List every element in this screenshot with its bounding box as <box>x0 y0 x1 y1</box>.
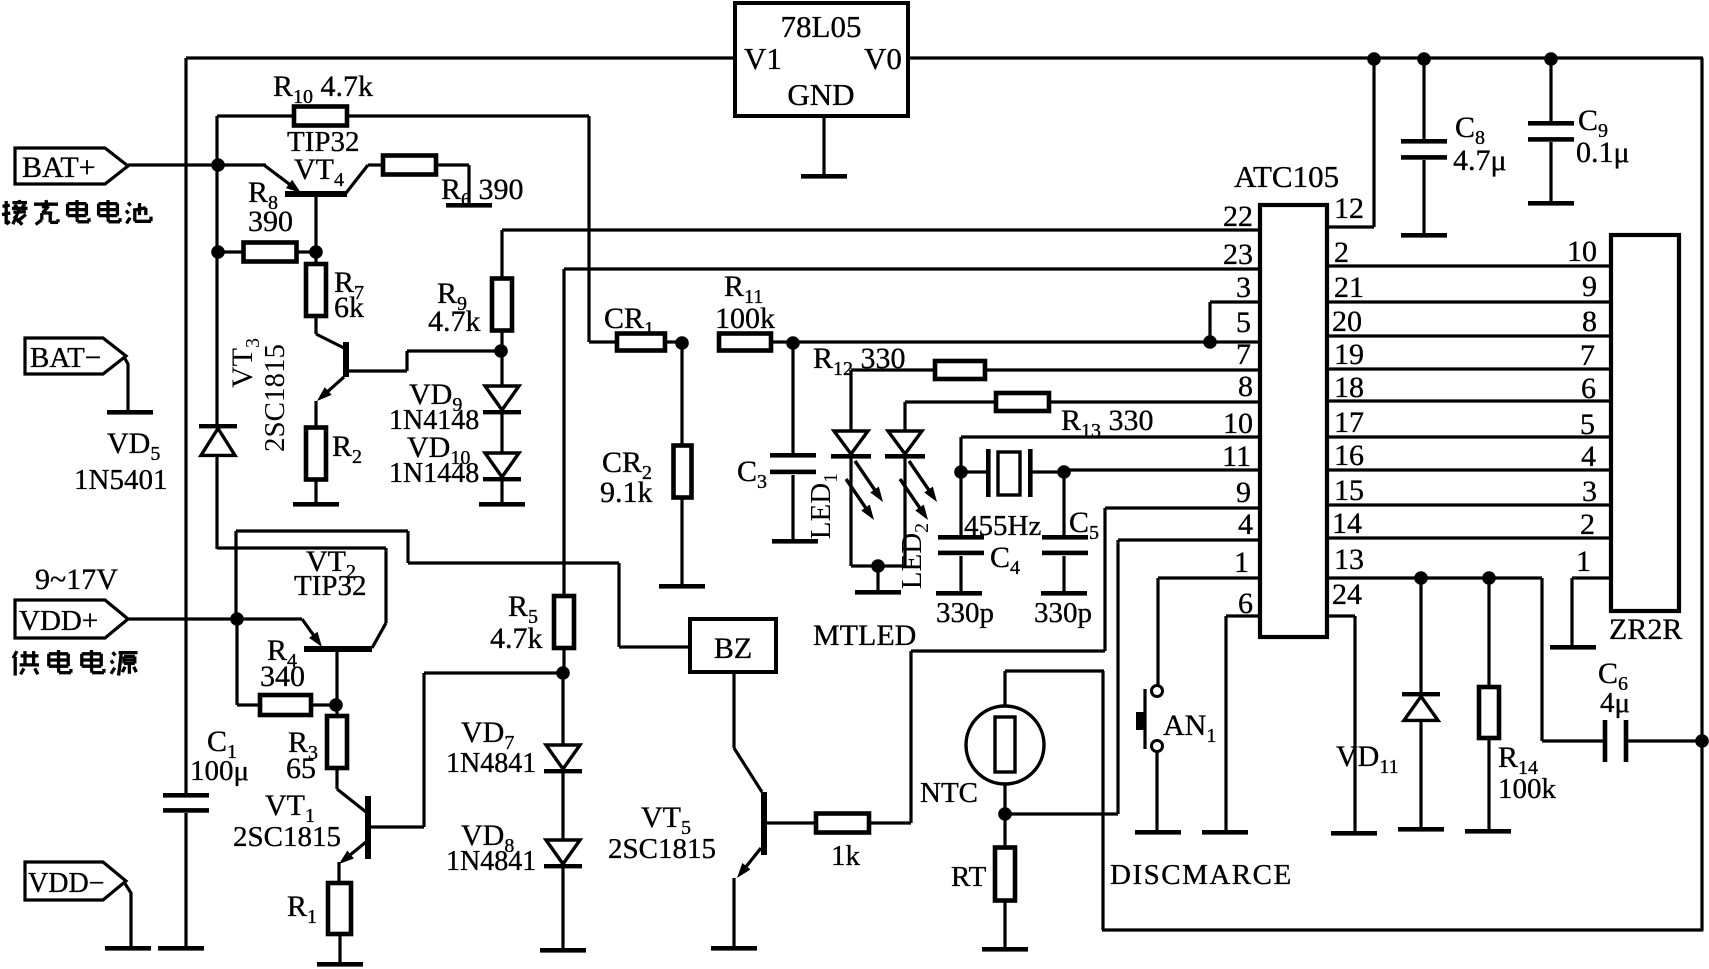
label VT3 2SC1815 <box>226 338 291 452</box>
transistor VT3 base bar <box>343 342 349 377</box>
ground VT5 <box>711 946 757 951</box>
ground C5 <box>1041 591 1087 596</box>
wire bottom rail (DISCMARCE) <box>1102 928 1703 931</box>
svg-text:12: 12 <box>1334 192 1364 225</box>
svg-text:3: 3 <box>1236 271 1251 304</box>
svg-text:15: 15 <box>1334 474 1364 507</box>
svg-text:3: 3 <box>1582 475 1597 508</box>
node VT2 base/R4/R3 junction <box>329 698 343 712</box>
svg-text:1N1448: 1N1448 <box>389 458 479 489</box>
wire NTC top routing <box>1005 671 1104 707</box>
pushbutton AN1 <box>1136 686 1216 752</box>
svg-text:21: 21 <box>1334 271 1364 304</box>
svg-text:2: 2 <box>1580 508 1595 541</box>
resistor R9 4.7k <box>428 277 512 338</box>
wire row pins 14-2 <box>1327 536 1611 539</box>
LED LED2 <box>885 402 933 589</box>
wire row pins 17-5 <box>1327 435 1611 438</box>
node R5/VD7/VT1 junction <box>556 666 570 680</box>
svg-text:9~17V: 9~17V <box>35 563 118 596</box>
wire R9 to node <box>500 329 503 351</box>
wire pin10 line <box>961 437 1260 472</box>
node top rail / pin12 riser junction <box>1367 52 1381 66</box>
resistor R1 <box>287 883 351 934</box>
resistor R7 6k <box>306 252 364 324</box>
svg-text:10: 10 <box>1223 407 1253 440</box>
node VD11 junction <box>1414 571 1428 585</box>
IC U3 ZR2R <box>1609 235 1682 646</box>
pin 23 ATC105 left <box>1223 238 1253 271</box>
pin 20 ATC105 right <box>1332 305 1362 338</box>
wire row pins 19-7 <box>1327 367 1611 370</box>
ground VD8 <box>540 948 586 953</box>
label 供电电源 (power supply) <box>13 650 137 676</box>
svg-text:1k: 1k <box>831 840 861 872</box>
transistor VT3 emitter <box>316 377 344 428</box>
svg-text:390: 390 <box>248 205 293 238</box>
wire VDD+ to node <box>128 617 237 620</box>
pin 5 ZR2R <box>1580 408 1595 441</box>
ground pin6 <box>1202 830 1248 835</box>
svg-text:1N4841: 1N4841 <box>446 748 536 779</box>
svg-text:TIP32: TIP32 <box>294 570 367 602</box>
pin 17 ATC105 right <box>1334 406 1364 439</box>
svg-text:340: 340 <box>260 660 305 693</box>
transistor VT2 collector <box>217 548 386 648</box>
svg-text:4.7k: 4.7k <box>490 622 543 655</box>
diode VD7 1N4841 <box>446 673 582 779</box>
connector BAT- <box>25 338 126 374</box>
wire 78L05 GND pin <box>822 116 825 175</box>
svg-text:9: 9 <box>1236 476 1251 509</box>
resistor RT <box>951 814 1015 901</box>
node NTC/RT junction <box>998 807 1012 821</box>
svg-text:1N4841: 1N4841 <box>446 846 536 877</box>
pin 1 ATC105 left <box>1234 546 1249 579</box>
svg-text:NTC: NTC <box>920 777 978 809</box>
wire BAT+ to VT4 emitter <box>218 163 266 166</box>
svg-text:10: 10 <box>1567 235 1597 268</box>
ground 78L05 <box>801 174 847 179</box>
wire R2 to ground <box>314 479 317 503</box>
LED LED1 <box>805 370 871 566</box>
pin 9 ATC105 left <box>1236 476 1251 509</box>
node R11/C3 junction <box>786 336 800 350</box>
label DISCMARCE <box>1110 859 1293 891</box>
wire ZR2R pin1 stub to ground <box>1572 578 1611 646</box>
pin 2 ATC105 right <box>1334 236 1349 269</box>
ground R2 <box>293 502 339 507</box>
wire R10 right drop to CR1 <box>587 116 590 342</box>
wire VDD+ up-over to R5/BZ (routing) <box>236 531 690 647</box>
svg-text:BAT−: BAT− <box>30 342 101 374</box>
svg-text:19: 19 <box>1334 338 1364 371</box>
pin 9 ZR2R <box>1582 270 1597 303</box>
label VT4 TIP32 <box>287 126 360 191</box>
ground R14 <box>1465 829 1511 834</box>
wire VT4 base to R8 node <box>314 197 317 252</box>
svg-text:VDD−: VDD− <box>28 868 104 899</box>
pin 19 ATC105 right <box>1334 338 1364 371</box>
ground R6 stub <box>446 203 492 208</box>
svg-text:7: 7 <box>1580 339 1595 372</box>
svg-text:5: 5 <box>1236 306 1251 339</box>
pin 14 ATC105 right <box>1332 507 1362 540</box>
wire NTC bottom <box>1003 784 1006 814</box>
transistor VT5 emitter <box>734 848 761 947</box>
transistor VT4 TIP32 emitter <box>264 165 301 193</box>
buzzer BZ <box>690 619 776 672</box>
wire BAT+ down to VD5 <box>215 165 218 424</box>
pin 15 ATC105 right <box>1334 474 1364 507</box>
resistor R2 <box>306 428 362 480</box>
resistor R12 330 <box>813 342 1260 380</box>
wire pin23 line <box>564 267 1260 270</box>
wire R6 to stub <box>436 165 469 204</box>
wire pin13 line <box>1327 576 1542 579</box>
svg-text:2SC1815: 2SC1815 <box>608 833 716 865</box>
wire VD8 to ground <box>561 868 564 949</box>
pin 13 ATC105 right <box>1334 543 1364 576</box>
svg-text:2SC1815: 2SC1815 <box>259 344 291 452</box>
LED2 arrows <box>900 461 937 520</box>
wire top rail right (78L05 V0 to right frame) <box>908 56 1703 59</box>
wire row pins 18-6 <box>1327 399 1611 402</box>
svg-text:11: 11 <box>1222 440 1251 473</box>
svg-text:330p: 330p <box>936 597 994 629</box>
svg-text:17: 17 <box>1334 406 1364 439</box>
transistor VT1 collector <box>337 768 366 812</box>
connector VDD+ <box>15 600 128 638</box>
label VT1 2SC1815 <box>233 789 341 853</box>
transistor VT2 base bar <box>304 646 372 652</box>
wire CR2 to ground <box>680 497 683 585</box>
svg-text:2SC1815: 2SC1815 <box>233 821 341 853</box>
pin 4 ZR2R <box>1581 440 1596 473</box>
wire left frame vertical (to C1) <box>184 58 187 793</box>
svg-text:BAT+: BAT+ <box>22 151 96 184</box>
svg-text:24: 24 <box>1332 578 1362 611</box>
wire pin24 stub <box>1327 616 1355 832</box>
capacitor C3 <box>737 343 816 540</box>
svg-text:330p: 330p <box>1034 597 1092 629</box>
svg-text:9: 9 <box>1582 270 1597 303</box>
transistor VT1 emitter <box>339 842 366 883</box>
svg-text:4μ: 4μ <box>1600 687 1630 719</box>
node R9/VD9/VT3 junction <box>494 344 508 358</box>
wire VDD- to ground <box>124 882 131 947</box>
svg-text:14: 14 <box>1332 507 1362 540</box>
ground C4 <box>936 591 982 596</box>
wire pin1 line <box>1158 578 1260 686</box>
transistor VT3 base wire to R9 node <box>348 351 501 371</box>
connector BAT+ <box>15 148 128 184</box>
transistor VT2 emitter <box>237 619 322 647</box>
transistor VT4 collector <box>346 165 383 193</box>
svg-text:2: 2 <box>1334 236 1349 269</box>
svg-text:V0: V0 <box>864 41 902 76</box>
wire BAT+ vertical up to R10 line <box>215 116 218 165</box>
resistor R3 65 <box>286 705 347 785</box>
svg-text:65: 65 <box>286 752 316 785</box>
wire pin6 stub <box>1226 616 1260 831</box>
capacitor C4 330p <box>936 472 1020 629</box>
svg-text:VDD+: VDD+ <box>19 605 98 637</box>
diode VD11 <box>1336 578 1440 828</box>
wire VT2 base down <box>335 652 338 705</box>
resistor CR1 <box>589 302 682 351</box>
svg-text:5: 5 <box>1580 408 1595 441</box>
pin 7 ATC105 left <box>1236 338 1251 371</box>
ground AN1 <box>1135 830 1181 835</box>
svg-text:1: 1 <box>1576 545 1591 578</box>
pin 12 ATC105 right <box>1334 192 1364 225</box>
wire 1k to pin9 <box>869 508 1105 823</box>
wire row pins 21-9 <box>1327 300 1611 303</box>
label 接充电电池 (connect rechargeable battery) <box>2 200 151 225</box>
wire pin22 line (R9 top to ATC105 pin 22) <box>502 230 1260 280</box>
ground C3 <box>772 539 818 544</box>
svg-text:R12 330: R12 330 <box>813 342 906 380</box>
wire BAT- to ground <box>124 357 128 411</box>
wire pin5 stub <box>1210 340 1260 343</box>
ground C9 <box>1528 201 1574 206</box>
pin 7 ZR2R <box>1580 339 1595 372</box>
ground VDD- <box>105 946 151 951</box>
pin 11 ATC105 left <box>1222 440 1251 473</box>
pin 21 ATC105 right <box>1334 271 1364 304</box>
LED1 arrows <box>846 461 883 520</box>
node C6 right frame junction <box>1695 734 1709 748</box>
ground C8 <box>1401 233 1447 238</box>
pin 2 ZR2R <box>1580 508 1595 541</box>
svg-text:78L05: 78L05 <box>781 9 862 44</box>
connector VDD- <box>25 862 126 900</box>
pin 16 ATC105 right <box>1334 439 1364 472</box>
thermistor NTC <box>920 706 1044 809</box>
resistor R11 100k <box>715 270 793 351</box>
ground pin24 <box>1331 831 1377 836</box>
svg-text:MTLED: MTLED <box>813 619 916 652</box>
ground ZR2R pin1 <box>1550 645 1596 650</box>
wire RT to ground <box>1003 901 1006 948</box>
node top rail / C8 junction <box>1417 52 1431 66</box>
pin 8 ATC105 left <box>1238 370 1253 403</box>
transistor VT3 collector <box>316 314 344 348</box>
wire BAT+ to node A <box>128 163 218 166</box>
wire pin8 line <box>905 400 996 403</box>
pin 5 ATC105 left <box>1236 306 1251 339</box>
transistor VT5 base bar <box>761 792 767 855</box>
resistor R14 100k <box>1479 578 1557 830</box>
ground C1 <box>158 946 204 951</box>
diode VD5 1N5401 <box>74 424 237 496</box>
transistor VT4 base bar <box>285 191 347 197</box>
svg-text:9.1k: 9.1k <box>600 476 653 509</box>
label VT2 TIP32 <box>294 545 367 602</box>
svg-text:16: 16 <box>1334 439 1364 472</box>
capacitor C5 330p <box>1034 472 1099 629</box>
node resonator right <box>1057 465 1071 479</box>
pin 10 ATC105 left <box>1223 407 1253 440</box>
svg-text:100k: 100k <box>1498 773 1557 805</box>
svg-text:ATC105: ATC105 <box>1234 159 1339 194</box>
svg-text:ZR2R: ZR2R <box>1609 613 1682 646</box>
svg-text:6: 6 <box>1581 372 1596 405</box>
wire LED cathodes join <box>851 564 905 567</box>
svg-text:100k: 100k <box>715 302 775 335</box>
wire BZ to VT5 collector <box>734 672 762 792</box>
wire pin7 line <box>851 368 935 371</box>
label 9~17V <box>35 563 118 596</box>
transistor VT5 base wire <box>767 821 816 824</box>
svg-text:GND: GND <box>787 77 854 112</box>
svg-text:23: 23 <box>1223 238 1253 271</box>
svg-text:0.1μ: 0.1μ <box>1576 136 1630 169</box>
wire LED join to ground <box>876 566 879 591</box>
wire R1 to ground <box>338 934 341 963</box>
pin 6 ATC105 left <box>1238 587 1253 620</box>
resistor CR2 9.1k <box>600 343 692 509</box>
pin 24 ATC105 right <box>1332 578 1362 611</box>
svg-text:13: 13 <box>1334 543 1364 576</box>
transistor VT1 base bar <box>365 796 371 859</box>
svg-text:20: 20 <box>1332 305 1362 338</box>
svg-text:6: 6 <box>1238 587 1253 620</box>
svg-text:R10 4.7k: R10 4.7k <box>273 70 373 108</box>
pin 22 ATC105 left <box>1223 200 1253 233</box>
wire pin9 line <box>1105 506 1260 509</box>
diode VD10 1N1448 <box>389 414 521 489</box>
pin 3 ATC105 left <box>1236 271 1251 304</box>
svg-text:4: 4 <box>1238 508 1253 541</box>
ground RT <box>982 947 1028 952</box>
node R8 left junction <box>211 245 225 259</box>
svg-text:4.7k: 4.7k <box>428 305 481 338</box>
diode VD8 1N4841 <box>446 773 582 877</box>
regulator U2 78L05 <box>735 3 908 116</box>
diode VD9 1N4148 <box>389 351 521 436</box>
wire row pins 2-10 <box>1327 264 1611 267</box>
ground BAT- <box>107 410 153 415</box>
svg-text:8: 8 <box>1238 370 1253 403</box>
node resonator left <box>954 465 968 479</box>
resistor R8 390 <box>218 176 316 262</box>
resonator B1 455Hz <box>961 449 1064 542</box>
ground VD10 <box>479 502 525 507</box>
capacitor C8 4.7u <box>1401 59 1507 234</box>
label MTLED <box>813 619 916 652</box>
wire VD5 to VT2 collector line <box>215 455 218 549</box>
svg-text:22: 22 <box>1223 200 1253 233</box>
svg-text:1: 1 <box>1234 546 1249 579</box>
capacitor C6 4u <box>1598 657 1702 762</box>
pin 18 ATC105 right <box>1334 371 1364 404</box>
wire ATC105 pin 12 riser <box>1327 59 1374 227</box>
pin 10 ZR2R <box>1567 235 1597 268</box>
svg-text:RT: RT <box>951 861 987 893</box>
ground VD11 <box>1398 827 1444 832</box>
svg-text:8: 8 <box>1582 305 1597 338</box>
wire row pins 20-8 <box>1327 334 1611 337</box>
wire pin4 line <box>1005 540 1260 814</box>
node R14 junction <box>1482 571 1496 585</box>
svg-text:V1: V1 <box>744 41 782 76</box>
svg-text:4: 4 <box>1581 440 1596 473</box>
IC U1 ATC105 <box>1234 159 1339 637</box>
node top rail / C9 junction <box>1544 52 1558 66</box>
pin 4 ATC105 left <box>1238 508 1253 541</box>
svg-text:BZ: BZ <box>714 632 752 665</box>
wire row pins 16-4 <box>1327 468 1611 471</box>
wire pin23 drop to R5 top <box>562 269 565 563</box>
wire long line to ATC105 pin 5 <box>793 340 1210 343</box>
svg-text:1N5401: 1N5401 <box>74 464 167 496</box>
label VT5 2SC1815 <box>608 801 716 865</box>
resistor R5 4.7k <box>490 563 574 673</box>
resistor R4 340 <box>237 619 336 715</box>
ground LEDs <box>855 590 901 595</box>
pin 8 ZR2R <box>1582 305 1597 338</box>
pin 1 ZR2R <box>1576 545 1591 578</box>
resistor R15 1k <box>816 814 869 873</box>
wire pin3 hook <box>1210 302 1260 342</box>
resistor R6 390 <box>383 156 524 212</box>
node pin5 junction <box>1203 335 1217 349</box>
capacitor C1 100u <box>163 725 249 947</box>
svg-text:4.7μ: 4.7μ <box>1453 144 1507 177</box>
svg-text:7: 7 <box>1236 338 1251 371</box>
transistor VT1 base wire <box>371 673 562 827</box>
pin 6 ZR2R <box>1581 372 1596 405</box>
node VT4 base junction <box>309 245 323 259</box>
ground R1 <box>317 962 363 967</box>
wire VD10 to ground <box>500 481 503 503</box>
capacitor C9 0.1u <box>1528 59 1630 202</box>
node LED join <box>871 559 885 573</box>
svg-text:100μ: 100μ <box>190 755 249 787</box>
wire DISCMARCE left border <box>1101 671 1104 930</box>
node A BAT+ junction <box>211 158 225 172</box>
node VDD+ junction <box>230 612 244 626</box>
wire row pins 15-3 <box>1327 503 1611 506</box>
wire AN1 to ground <box>1155 751 1158 831</box>
ground CR2 <box>659 584 705 589</box>
wire right frame vertical <box>1700 58 1703 931</box>
svg-text:6k: 6k <box>334 291 364 324</box>
resistor R10 4.7k <box>217 70 589 126</box>
wire pin13 drop to C6 <box>1542 578 1603 741</box>
svg-text:18: 18 <box>1334 371 1364 404</box>
resistor R13 330 <box>996 393 1260 442</box>
wire pin11 line <box>1064 468 1260 471</box>
node CR1/CR2 junction <box>675 336 689 350</box>
svg-text:DISCMARCE: DISCMARCE <box>1110 859 1293 891</box>
wire top rail left (V+ to 78L05 V1) <box>186 56 735 59</box>
pin 3 ZR2R <box>1582 475 1597 508</box>
